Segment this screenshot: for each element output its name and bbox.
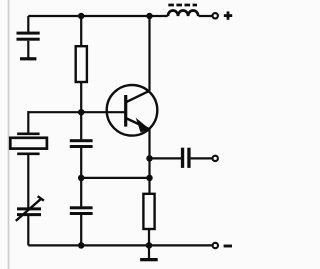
transistor Q1	[107, 85, 158, 136]
terminal minus	[213, 243, 218, 248]
page edge line	[8, 0, 10, 269]
wire R1 bottom lead	[80, 82, 82, 112]
node base	[78, 109, 85, 116]
core dashes above L1	[168, 4, 197, 7]
plus label	[224, 11, 232, 19]
terminal plus	[213, 13, 218, 18]
wire C3 top lead	[80, 178, 82, 207]
wire C2 bottom lead	[80, 148, 82, 178]
wire C3 bottom lead	[80, 215, 82, 245]
node emitter divider	[146, 175, 153, 182]
wire R2 bottom lead	[148, 229, 150, 245]
wire emitter output row	[150, 157, 182, 159]
trimmer capacitor C5	[16, 196, 44, 221]
wire C4 to output terminal	[191, 157, 213, 159]
wire C2 top lead	[80, 112, 82, 139]
wire collector to rail	[148, 16, 150, 91]
wire C1 top lead	[27, 16, 29, 32]
node bottom rail / C3	[78, 242, 85, 249]
wire L1 to plus terminal	[199, 15, 213, 17]
node top rail / collector	[146, 13, 153, 20]
capacitor C3	[70, 206, 93, 215]
capacitor C1	[17, 32, 40, 41]
ground bar below C1	[20, 57, 36, 60]
resistor R1	[76, 46, 87, 82]
wire base row	[28, 111, 125, 113]
wire emitter down	[148, 129, 150, 194]
ground	[140, 245, 158, 261]
wire crystal to trimmer	[27, 155, 29, 208]
node top rail / R1	[78, 13, 85, 20]
wire divider mid row	[81, 177, 149, 179]
wire bottom rail	[28, 244, 212, 246]
wire trimmer to bottom rail	[27, 215, 29, 246]
node divider mid	[78, 175, 85, 182]
node bottom rail / ground	[146, 242, 153, 249]
capacitor C2	[70, 139, 93, 148]
node emitter output	[146, 155, 153, 162]
inductor L1	[168, 10, 198, 16]
wire top supply rail	[28, 15, 167, 17]
crystal X1	[10, 134, 47, 154]
minus label	[224, 245, 232, 248]
wire C1 bottom lead	[27, 41, 29, 58]
resistor R2	[143, 194, 154, 229]
wire R1 top lead	[80, 16, 82, 46]
wire left column to crystal	[27, 111, 29, 135]
terminal output	[213, 156, 218, 161]
capacitor C4	[181, 148, 191, 168]
